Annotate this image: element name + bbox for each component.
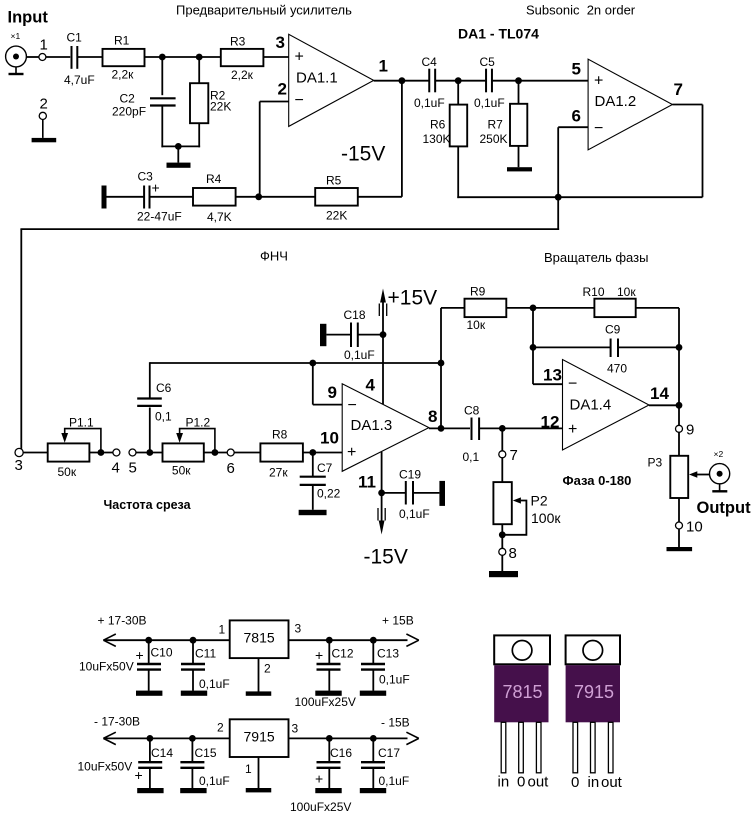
wire gnd rail xyxy=(161,145,200,147)
junction C13 xyxy=(370,637,377,644)
svg-text:−: − xyxy=(295,92,304,109)
svg-text:DA1.2: DA1.2 xyxy=(595,93,637,110)
svg-text:×1: ×1 xyxy=(11,31,21,41)
svg-text:13: 13 xyxy=(543,366,562,385)
wire R2 drop xyxy=(198,57,200,83)
svg-text:0,1uF: 0,1uF xyxy=(474,96,505,110)
svg-text:10к: 10к xyxy=(617,285,636,299)
svg-text:0,1uF: 0,1uF xyxy=(379,774,410,788)
svg-text:DA1.4: DA1.4 xyxy=(570,397,612,414)
svg-text:5: 5 xyxy=(129,460,137,477)
capacitor C6 xyxy=(149,408,151,453)
svg-text:7: 7 xyxy=(674,80,683,99)
svg-text:0,1uF: 0,1uF xyxy=(344,348,375,362)
wire pin13 xyxy=(532,308,534,384)
capacitor C19 bar terminal xyxy=(439,481,445,506)
junction C18 tap xyxy=(380,331,387,338)
wire P3 to node10 xyxy=(678,498,680,522)
junction C10 xyxy=(145,637,152,644)
junction node7 tap xyxy=(499,425,506,432)
svg-text:100uFx25V: 100uFx25V xyxy=(290,800,351,814)
svg-text:-15V: -15V xyxy=(364,546,408,569)
wire DA1.4 output xyxy=(649,404,679,406)
svg-text:Предварительный усилитель: Предварительный усилитель xyxy=(176,2,352,17)
node 1 xyxy=(39,54,46,61)
svg-text:Вращатель фазы: Вращатель фазы xyxy=(544,250,648,265)
junction gnd rail xyxy=(175,143,182,150)
svg-text:10к: 10к xyxy=(467,318,486,332)
capacitor C13 xyxy=(372,640,374,663)
svg-text:+: + xyxy=(152,180,160,196)
op-amp DA1.4 xyxy=(563,360,650,451)
svg-text:- 15В: - 15В xyxy=(381,716,410,730)
ground R7 xyxy=(518,146,520,167)
junction DA1.4 out xyxy=(676,402,683,409)
capacitor C12 xyxy=(328,640,330,663)
svg-text:0,22: 0,22 xyxy=(317,487,341,501)
svg-text:0,1uF: 0,1uF xyxy=(399,507,430,521)
node 3 xyxy=(15,448,23,456)
op-amp DA1.2 xyxy=(588,59,672,150)
junction P2 bottom xyxy=(499,531,506,538)
junction C9 right xyxy=(676,344,683,351)
svg-text:3: 3 xyxy=(15,457,23,474)
svg-text:DA1 - TL074: DA1 - TL074 xyxy=(458,25,539,41)
svg-text:R1: R1 xyxy=(114,34,130,48)
wire out to mid rail xyxy=(440,363,442,428)
svg-text:22-47uF: 22-47uF xyxy=(137,210,182,224)
svg-text:R8: R8 xyxy=(272,428,288,442)
svg-text:2,2к: 2,2к xyxy=(112,68,135,82)
svg-text:10uFx50V: 10uFx50V xyxy=(79,660,134,674)
svg-text:P3: P3 xyxy=(648,456,663,470)
svg-text:R5: R5 xyxy=(326,174,342,188)
wiper P3 arrow xyxy=(689,471,697,477)
node 9 xyxy=(676,425,683,432)
wire R5 to DA1.1 out xyxy=(358,196,402,198)
resistor R2 xyxy=(190,83,208,123)
svg-text:C16: C16 xyxy=(330,746,352,760)
wire node9 to P3 xyxy=(678,433,680,456)
junction R6 tap xyxy=(455,77,462,84)
svg-text:P2: P2 xyxy=(531,493,548,509)
wire C5 to DA1.2 pin5 xyxy=(492,80,588,82)
node 6 xyxy=(227,449,234,456)
svg-text:10: 10 xyxy=(320,429,339,448)
ground C12 xyxy=(315,691,341,696)
svg-text:11: 11 xyxy=(358,473,376,492)
capacitor C1 xyxy=(71,46,73,69)
ground node 2 xyxy=(42,120,44,138)
svg-text:0: 0 xyxy=(571,774,579,791)
svg-text:2,2к: 2,2к xyxy=(231,68,254,82)
wire DA1.3 output xyxy=(429,427,470,429)
svg-text:R4: R4 xyxy=(206,172,222,186)
svg-text:4: 4 xyxy=(366,376,376,395)
potentiometer P2 xyxy=(493,482,511,524)
wire C2 drop xyxy=(161,57,163,95)
wire node3 to P1.1 xyxy=(23,452,48,454)
svg-text:Input: Input xyxy=(8,9,49,27)
capacitor C18 xyxy=(326,334,351,336)
wire supply2 left xyxy=(103,737,229,739)
ground X1 xyxy=(15,67,17,74)
wire R9 to node13 xyxy=(506,307,594,309)
svg-text:9: 9 xyxy=(328,383,337,402)
svg-text:C18: C18 xyxy=(344,308,366,322)
junction C6 tap xyxy=(146,449,153,456)
svg-text:1: 1 xyxy=(219,623,226,637)
ground node10 xyxy=(678,529,680,547)
svg-text:R7: R7 xyxy=(488,118,504,132)
potentiometer P3 xyxy=(670,456,688,498)
svg-text:C2: C2 xyxy=(120,92,136,106)
svg-text:C7: C7 xyxy=(317,461,333,475)
svg-text:2: 2 xyxy=(40,96,48,113)
resistor R5 xyxy=(315,188,358,206)
svg-text:0,1uF: 0,1uF xyxy=(199,677,230,691)
svg-text:×2: ×2 xyxy=(714,449,724,459)
op-amp DA1.3 xyxy=(342,384,429,472)
capacitor C4 xyxy=(428,69,430,93)
wire to node8 xyxy=(501,535,503,548)
wiper P2 arrow xyxy=(513,497,521,503)
potentiometer P1.1 xyxy=(48,443,90,461)
wire pin11 xyxy=(381,452,383,493)
wire R10 right xyxy=(636,307,679,309)
svg-text:R9: R9 xyxy=(470,285,486,299)
svg-text:4: 4 xyxy=(112,460,120,477)
ground 7915 xyxy=(258,757,260,788)
svg-text:+15V: +15V xyxy=(388,287,438,310)
svg-text:250K: 250K xyxy=(480,132,508,146)
resistor R6 xyxy=(457,81,459,105)
svg-text:27к: 27к xyxy=(269,466,288,480)
capacitor C19 xyxy=(382,492,406,494)
svg-text:+ 17-30В: + 17-30В xyxy=(98,614,147,628)
resistor R3 xyxy=(221,49,264,66)
svg-text:P1.1: P1.1 xyxy=(69,416,94,430)
wire mid rail xyxy=(150,362,441,364)
svg-text:C15: C15 xyxy=(195,746,217,760)
wire supply1 right xyxy=(289,639,408,641)
wire supply1 left xyxy=(103,639,229,641)
junction R7 tap xyxy=(515,77,522,84)
junction C2 tap xyxy=(159,54,166,61)
svg-text:- 17-30В: - 17-30В xyxy=(94,715,140,729)
svg-text:3: 3 xyxy=(276,33,285,52)
svg-text:14: 14 xyxy=(650,384,669,403)
junction C17 xyxy=(370,735,377,742)
connector X1 RCA input xyxy=(6,46,27,67)
wire C2 to gnd rail xyxy=(161,106,163,148)
capacitor C17 xyxy=(372,738,374,761)
svg-text:+: + xyxy=(315,647,323,663)
svg-text:Subsonic 2n order: Subsonic 2n order xyxy=(526,2,636,17)
arrow supply left2 xyxy=(103,732,115,738)
wire C3 to R4 xyxy=(150,196,194,198)
svg-text:+ 15В: + 15В xyxy=(382,614,414,628)
wire R1 to R3 xyxy=(145,56,221,58)
junction C16 xyxy=(326,735,333,742)
regulator 7815 box xyxy=(230,620,289,658)
wire C1 to R1 xyxy=(77,56,102,58)
resistor R8 xyxy=(260,443,303,461)
regulator 7915 legs xyxy=(573,722,578,773)
wire right column xyxy=(678,308,680,425)
svg-text:+: + xyxy=(594,73,603,90)
svg-text:Фаза 0-180: Фаза 0-180 xyxy=(563,473,632,488)
svg-text:1: 1 xyxy=(379,57,388,76)
wire R6 to feedback xyxy=(457,146,459,198)
ground C7 xyxy=(299,510,327,515)
regulator 7815 legs xyxy=(501,722,506,773)
junction P1.2 wiper xyxy=(212,449,219,456)
svg-text:C10: C10 xyxy=(151,646,173,660)
svg-text:6: 6 xyxy=(227,460,235,477)
svg-text:C14: C14 xyxy=(151,746,173,760)
junction C12 xyxy=(326,637,333,644)
junction C15 xyxy=(189,735,196,742)
svg-text:1: 1 xyxy=(245,762,252,776)
svg-text:3: 3 xyxy=(295,622,302,636)
arrow -15V xyxy=(381,493,383,521)
junction DA1.3 out xyxy=(438,425,445,432)
ground C16 xyxy=(315,788,341,793)
ground 7815 xyxy=(258,658,260,692)
svg-text:50к: 50к xyxy=(172,464,191,478)
wire node1 to C1 xyxy=(46,56,70,58)
svg-text:22K: 22K xyxy=(326,209,347,223)
capacitor C16 xyxy=(328,738,330,761)
svg-text:Output: Output xyxy=(697,499,752,517)
svg-text:22K: 22K xyxy=(210,100,231,114)
svg-text:9: 9 xyxy=(686,422,694,439)
svg-text:DA1.1: DA1.1 xyxy=(296,70,338,87)
svg-text:2: 2 xyxy=(278,80,287,99)
wire supply2 right xyxy=(289,737,408,739)
junction DA1.2 feedback xyxy=(555,194,562,201)
svg-text:7915: 7915 xyxy=(244,729,275,745)
junction R2 tap xyxy=(196,54,203,61)
svg-text:+: + xyxy=(136,647,144,663)
svg-text:0,1uF: 0,1uF xyxy=(199,774,230,788)
ground C14 xyxy=(137,788,163,793)
node 5 xyxy=(129,449,136,456)
regulator 7915 box xyxy=(230,719,289,757)
ground C13 xyxy=(360,691,386,696)
svg-text:+: + xyxy=(295,49,304,66)
svg-text:+: + xyxy=(315,771,323,787)
svg-text:+: + xyxy=(135,767,143,783)
capacitor C8 xyxy=(471,418,473,441)
svg-text:4,7K: 4,7K xyxy=(207,210,232,224)
capacitor C14 xyxy=(149,738,151,761)
svg-text:ФНЧ: ФНЧ xyxy=(260,249,288,264)
junction DA1.1 out xyxy=(399,77,406,84)
wire X1 to node 1 xyxy=(26,56,38,58)
svg-text:C12: C12 xyxy=(332,647,354,661)
node 7 xyxy=(499,451,506,458)
ground X2 xyxy=(719,484,721,491)
svg-text:+: + xyxy=(568,421,577,438)
capacitor C9 xyxy=(533,346,610,348)
svg-text:0: 0 xyxy=(517,774,525,791)
svg-text:50к: 50к xyxy=(58,465,77,479)
wire pin2 xyxy=(260,101,289,103)
svg-text:C11: C11 xyxy=(195,647,216,661)
svg-text:0,1: 0,1 xyxy=(155,410,172,424)
junction C9 left xyxy=(530,344,537,351)
svg-text:+: + xyxy=(347,444,356,461)
svg-text:−: − xyxy=(568,375,577,392)
svg-text:-15V: -15V xyxy=(341,143,385,166)
arrow supply right2 xyxy=(406,732,418,738)
wire DA1.2 output loop xyxy=(672,104,702,106)
wire node7 to P2 xyxy=(501,458,503,482)
wire bar to C3 xyxy=(107,196,145,198)
svg-text:C6: C6 xyxy=(156,381,172,395)
wire node6 to R8 xyxy=(234,452,260,454)
svg-text:C13: C13 xyxy=(377,647,399,661)
capacitor C7 xyxy=(312,453,314,477)
svg-text:C19: C19 xyxy=(399,468,421,482)
junction C7 tap xyxy=(309,449,316,456)
junction pin2 feedback xyxy=(255,193,262,200)
svg-text:6: 6 xyxy=(572,107,581,126)
node 8 xyxy=(499,548,506,555)
arrow supply left1 xyxy=(103,634,115,640)
capacitor C5 xyxy=(485,69,487,93)
capacitor C10 xyxy=(148,640,150,663)
svg-text:out: out xyxy=(601,774,623,791)
svg-text:1: 1 xyxy=(40,37,48,54)
chassis bar C3 xyxy=(102,186,107,209)
svg-text:7915: 7915 xyxy=(574,682,614,702)
ground preamp xyxy=(177,146,179,162)
svg-text:7815: 7815 xyxy=(503,682,543,702)
svg-text:8: 8 xyxy=(428,407,437,426)
svg-text:DA1.3: DA1.3 xyxy=(351,417,393,434)
svg-text:8: 8 xyxy=(509,545,517,562)
regulator 7915 package body xyxy=(566,665,620,722)
wire R2 to gnd rail xyxy=(198,123,200,147)
arrow supply right1 xyxy=(406,634,418,640)
op-amp DA1.1 xyxy=(289,34,374,126)
svg-text:3: 3 xyxy=(292,722,299,736)
svg-text:12: 12 xyxy=(541,413,560,432)
svg-text:C4: C4 xyxy=(422,55,438,69)
regulator 7815 package body xyxy=(494,665,548,722)
node 4 xyxy=(113,449,120,456)
wire C4 to C5 xyxy=(435,80,485,82)
svg-text:10: 10 xyxy=(686,519,703,536)
wire P1.2 to node6 xyxy=(204,452,228,454)
junction C19 tap xyxy=(378,490,385,497)
svg-text:100к: 100к xyxy=(531,510,561,526)
svg-text:in: in xyxy=(588,774,600,791)
svg-text:C9: C9 xyxy=(605,323,621,337)
junction P1.1 wiper xyxy=(98,449,105,456)
ground C10 xyxy=(136,691,162,696)
resistor R1 xyxy=(103,49,145,66)
junction pin9 tap xyxy=(309,360,316,367)
regulator 7915 package tab xyxy=(566,635,620,664)
svg-text:C5: C5 xyxy=(480,55,496,69)
junction C14 xyxy=(147,735,154,742)
svg-text:Частота среза: Частота среза xyxy=(104,498,192,512)
wire R4 to R5 xyxy=(236,196,316,198)
regulator 7815 package tab xyxy=(494,635,550,664)
resistor R7 xyxy=(518,81,520,104)
arrow +15V xyxy=(380,289,386,303)
connector X2 RCA output xyxy=(710,464,730,484)
wire P2 bottom xyxy=(501,524,503,535)
svg-text:7: 7 xyxy=(510,447,518,464)
wire pin12 to node7 xyxy=(501,428,503,450)
svg-text:0,1uF: 0,1uF xyxy=(414,96,445,110)
capacitor C3 xyxy=(143,186,145,209)
node 2 xyxy=(39,112,46,119)
wire pin9 xyxy=(312,363,314,405)
capacitor C18 bar terminal xyxy=(320,324,326,346)
ground node8 xyxy=(501,556,503,572)
svg-text:220pF: 220pF xyxy=(112,105,146,119)
capacitor C15 xyxy=(191,738,193,761)
svg-text:100uFx25V: 100uFx25V xyxy=(295,695,356,709)
wire node5 to P1.2 xyxy=(136,452,162,454)
junction R10 left xyxy=(530,305,537,312)
svg-text:130K: 130K xyxy=(423,132,451,146)
svg-text:P1.2: P1.2 xyxy=(186,416,211,430)
svg-text:out: out xyxy=(528,774,550,791)
svg-text:C1: C1 xyxy=(67,31,83,45)
svg-text:0,1uF: 0,1uF xyxy=(379,673,410,687)
svg-text:0,1: 0,1 xyxy=(463,450,480,464)
junction out rail tap xyxy=(438,360,445,367)
potentiometer P1.2 xyxy=(163,443,204,461)
svg-text:R3: R3 xyxy=(230,35,246,49)
node 10 xyxy=(676,522,683,529)
wire pin6 xyxy=(558,126,588,128)
svg-text:470: 470 xyxy=(607,362,627,376)
ground C15 xyxy=(180,788,206,793)
wire R9 link xyxy=(440,308,442,363)
svg-text:2: 2 xyxy=(217,721,224,735)
svg-text:R10: R10 xyxy=(583,285,605,299)
svg-text:C8: C8 xyxy=(464,404,480,418)
svg-text:−: − xyxy=(594,120,603,137)
wire R8 to DA1.3 pin10 xyxy=(303,452,342,454)
ground C11 xyxy=(181,691,207,696)
wire pin4 +15V supply xyxy=(382,296,384,404)
resistor R10 xyxy=(594,299,635,317)
svg-text:10uFx50V: 10uFx50V xyxy=(78,760,133,774)
svg-text:2: 2 xyxy=(264,662,271,676)
capacitor C2 xyxy=(150,97,176,99)
svg-text:7815: 7815 xyxy=(244,630,275,646)
wire DA1.1 output xyxy=(374,80,429,82)
wire P1.1 to node4 xyxy=(89,452,112,454)
svg-text:5: 5 xyxy=(572,60,581,79)
wire stage link down-left xyxy=(557,197,559,230)
svg-text:in: in xyxy=(498,774,510,791)
ground C17 xyxy=(360,788,386,793)
resistor R4 xyxy=(193,188,236,206)
svg-text:C17: C17 xyxy=(378,746,400,760)
svg-text:R6: R6 xyxy=(430,118,446,132)
resistor R9 xyxy=(465,299,507,317)
